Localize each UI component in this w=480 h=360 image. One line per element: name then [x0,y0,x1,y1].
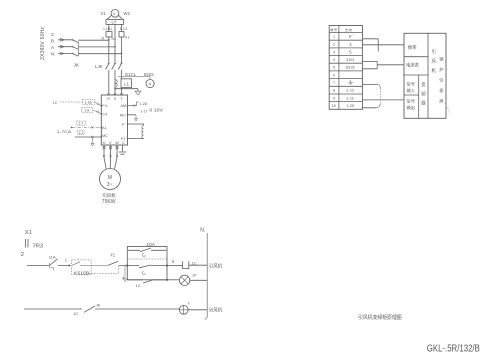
svg-text:J6: J6 [96,302,101,307]
svg-text:1C: 1C [136,283,141,288]
svg-text:B: B [51,39,54,44]
svg-text:1-11: 1-11 [347,96,354,100]
svg-text:端 号: 端 号 [330,27,337,32]
svg-text:1 1-3: 1 1-3 [120,27,128,31]
svg-text:频率: 频率 [408,44,417,51]
svg-text:10: 10 [332,104,336,108]
svg-text:7: 7 [333,81,335,85]
svg-text:引风机: 引风机 [103,192,117,199]
svg-text:4: 4 [333,58,335,62]
svg-text:表: 表 [439,87,444,94]
svg-text:1-2D: 1-2D [140,102,148,106]
svg-text:75KW: 75KW [102,199,116,205]
svg-text:X1: X1 [25,230,32,236]
svg-text:1-7: 1-7 [78,122,83,126]
svg-text:7R3: 7R3 [33,244,44,250]
svg-text:6: 6 [333,73,335,77]
svg-text:器: 器 [421,101,426,107]
svg-text:1C: 1C [73,311,78,316]
svg-text:V: V [113,11,116,16]
svg-text:T: T [120,97,123,101]
svg-text:B102: B102 [346,66,355,70]
svg-text:变: 变 [421,81,426,88]
svg-text:3~: 3~ [107,182,113,188]
svg-text:屏: 屏 [439,99,443,105]
svg-text:2: 2 [21,252,24,258]
svg-text:AM: AM [121,104,127,108]
svg-text:输入: 输入 [407,87,416,94]
svg-text:A1: A1 [102,126,107,130]
svg-text:1P: 1P [192,274,197,278]
svg-text:5: 5 [349,50,352,55]
svg-text:3X380V 50Hz: 3X380V 50Hz [40,27,46,60]
svg-text:K516B: K516B [74,271,90,276]
svg-text:2: 2 [333,43,335,47]
svg-text:W: W [115,141,119,145]
svg-text:信号: 信号 [407,98,415,105]
svg-text:FV.: FV. [102,104,108,108]
svg-text:仪: 仪 [439,78,444,83]
svg-text:1-9: 1-9 [84,109,89,113]
svg-text:引: 引 [432,48,436,55]
svg-text:1-12: 1-12 [347,89,355,93]
svg-text:9: 9 [333,96,335,100]
svg-text:GKL-.5R/132/B: GKL-.5R/132/B [427,343,480,354]
svg-text:3: 3 [333,50,335,54]
svg-text:去 向: 去 向 [345,27,352,32]
svg-text:1C: 1C [53,101,58,105]
svg-text:11A: 11A [49,255,56,260]
svg-text:M: M [108,175,112,181]
svg-text:N: N [51,52,54,57]
svg-text:C: C [51,32,55,37]
svg-text:1: 1 [65,257,68,262]
svg-text:风: 风 [432,59,437,65]
svg-text:R: R [107,97,110,101]
svg-text:引风机: 引风机 [209,263,223,270]
svg-text:1-7CA: 1-7CA [57,129,72,134]
svg-text:MC: MC [102,134,108,138]
svg-text:X1: X1 [125,36,130,40]
svg-text:8: 8 [333,89,335,93]
svg-text:3101: 3101 [346,58,354,62]
svg-text:0 10V: 0 10V [149,108,163,113]
svg-text:C: C [122,141,125,145]
svg-text:N,: N, [200,228,205,234]
svg-text:V1: V1 [101,11,107,16]
svg-text:1-1: 1-1 [78,131,83,135]
svg-text:电流表: 电流表 [406,61,420,68]
svg-text:Y1: Y1 [110,253,116,258]
svg-text:炉: 炉 [439,66,443,73]
svg-text:1-1T: 1-1T [140,110,148,114]
svg-text:P: P [122,123,125,127]
svg-text:F: F [188,302,190,306]
svg-text:L1: L1 [124,81,130,86]
svg-text:引风机变频柜原理图: 引风机变频柜原理图 [358,314,402,321]
svg-text:1-25: 1-25 [347,104,355,108]
svg-text:1C: 1C [192,260,197,265]
svg-text:机: 机 [432,67,437,74]
svg-text:1-1B: 1-1B [85,101,93,105]
svg-text:A: A [149,82,152,86]
svg-text:10A: 10A [146,242,155,247]
svg-text:1: 1 [333,35,335,39]
svg-text:B102: B102 [144,72,154,77]
svg-text:频: 频 [421,91,426,98]
svg-text:MC: MC [120,113,126,117]
svg-text:5: 5 [172,259,175,264]
svg-text:分风机: 分风机 [209,307,223,314]
svg-text:C4: C4 [102,113,107,117]
svg-text:V: V [109,141,112,145]
svg-text:1 1N1: 1 1N1 [103,27,112,31]
svg-text:4: 4 [122,276,125,281]
svg-text:LY: LY [112,20,117,25]
svg-text:5: 5 [333,66,335,70]
svg-text:4: 4 [349,42,352,47]
svg-text:N1: N1 [112,37,117,41]
svg-text:信号: 信号 [407,81,415,88]
svg-text:W2: W2 [124,11,131,16]
svg-text:E1CL: E1CL [125,72,136,77]
svg-text:A: A [51,45,55,50]
svg-text:LJK: LJK [95,64,103,69]
svg-text:U: U [103,141,106,145]
svg-text:锅: 锅 [439,56,443,63]
svg-text:S: S [114,97,117,101]
svg-text:R: R [102,37,105,41]
svg-text:JK: JK [74,63,80,69]
svg-text:输出: 输出 [407,104,415,111]
